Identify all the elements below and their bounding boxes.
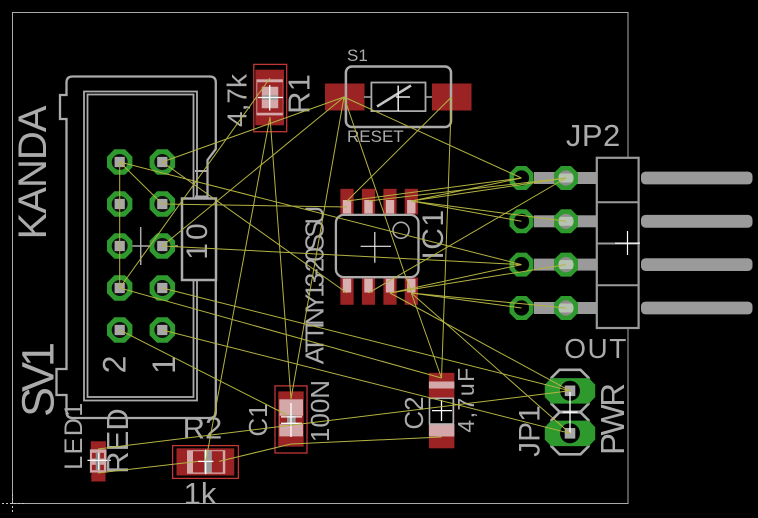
svg-text:RED: RED	[100, 408, 135, 473]
svg-text:IC1: IC1	[417, 208, 450, 259]
svg-text:KANDA: KANDA	[11, 105, 55, 239]
svg-text:R2: R2	[183, 411, 223, 446]
svg-text:PWR: PWR	[594, 384, 631, 455]
svg-text:OUT: OUT	[564, 333, 628, 364]
svg-text:JP2: JP2	[566, 118, 621, 153]
svg-text:S1: S1	[347, 46, 368, 65]
svg-text:LED1: LED1	[60, 401, 88, 470]
svg-text:2: 2	[97, 356, 133, 374]
svg-text:R1: R1	[282, 74, 317, 114]
svg-text:JP1: JP1	[514, 405, 547, 457]
svg-text:C2: C2	[399, 396, 429, 429]
svg-text:1k: 1k	[184, 476, 217, 511]
svg-text:C1: C1	[243, 403, 273, 436]
svg-text:4,7k: 4,7k	[221, 73, 252, 127]
svg-text:100N: 100N	[305, 380, 335, 442]
svg-text:SV1: SV1	[13, 344, 64, 417]
svg-text:ATTINY13-20SSU: ATTINY13-20SSU	[300, 208, 330, 365]
svg-text:4,7uF: 4,7uF	[453, 366, 479, 432]
